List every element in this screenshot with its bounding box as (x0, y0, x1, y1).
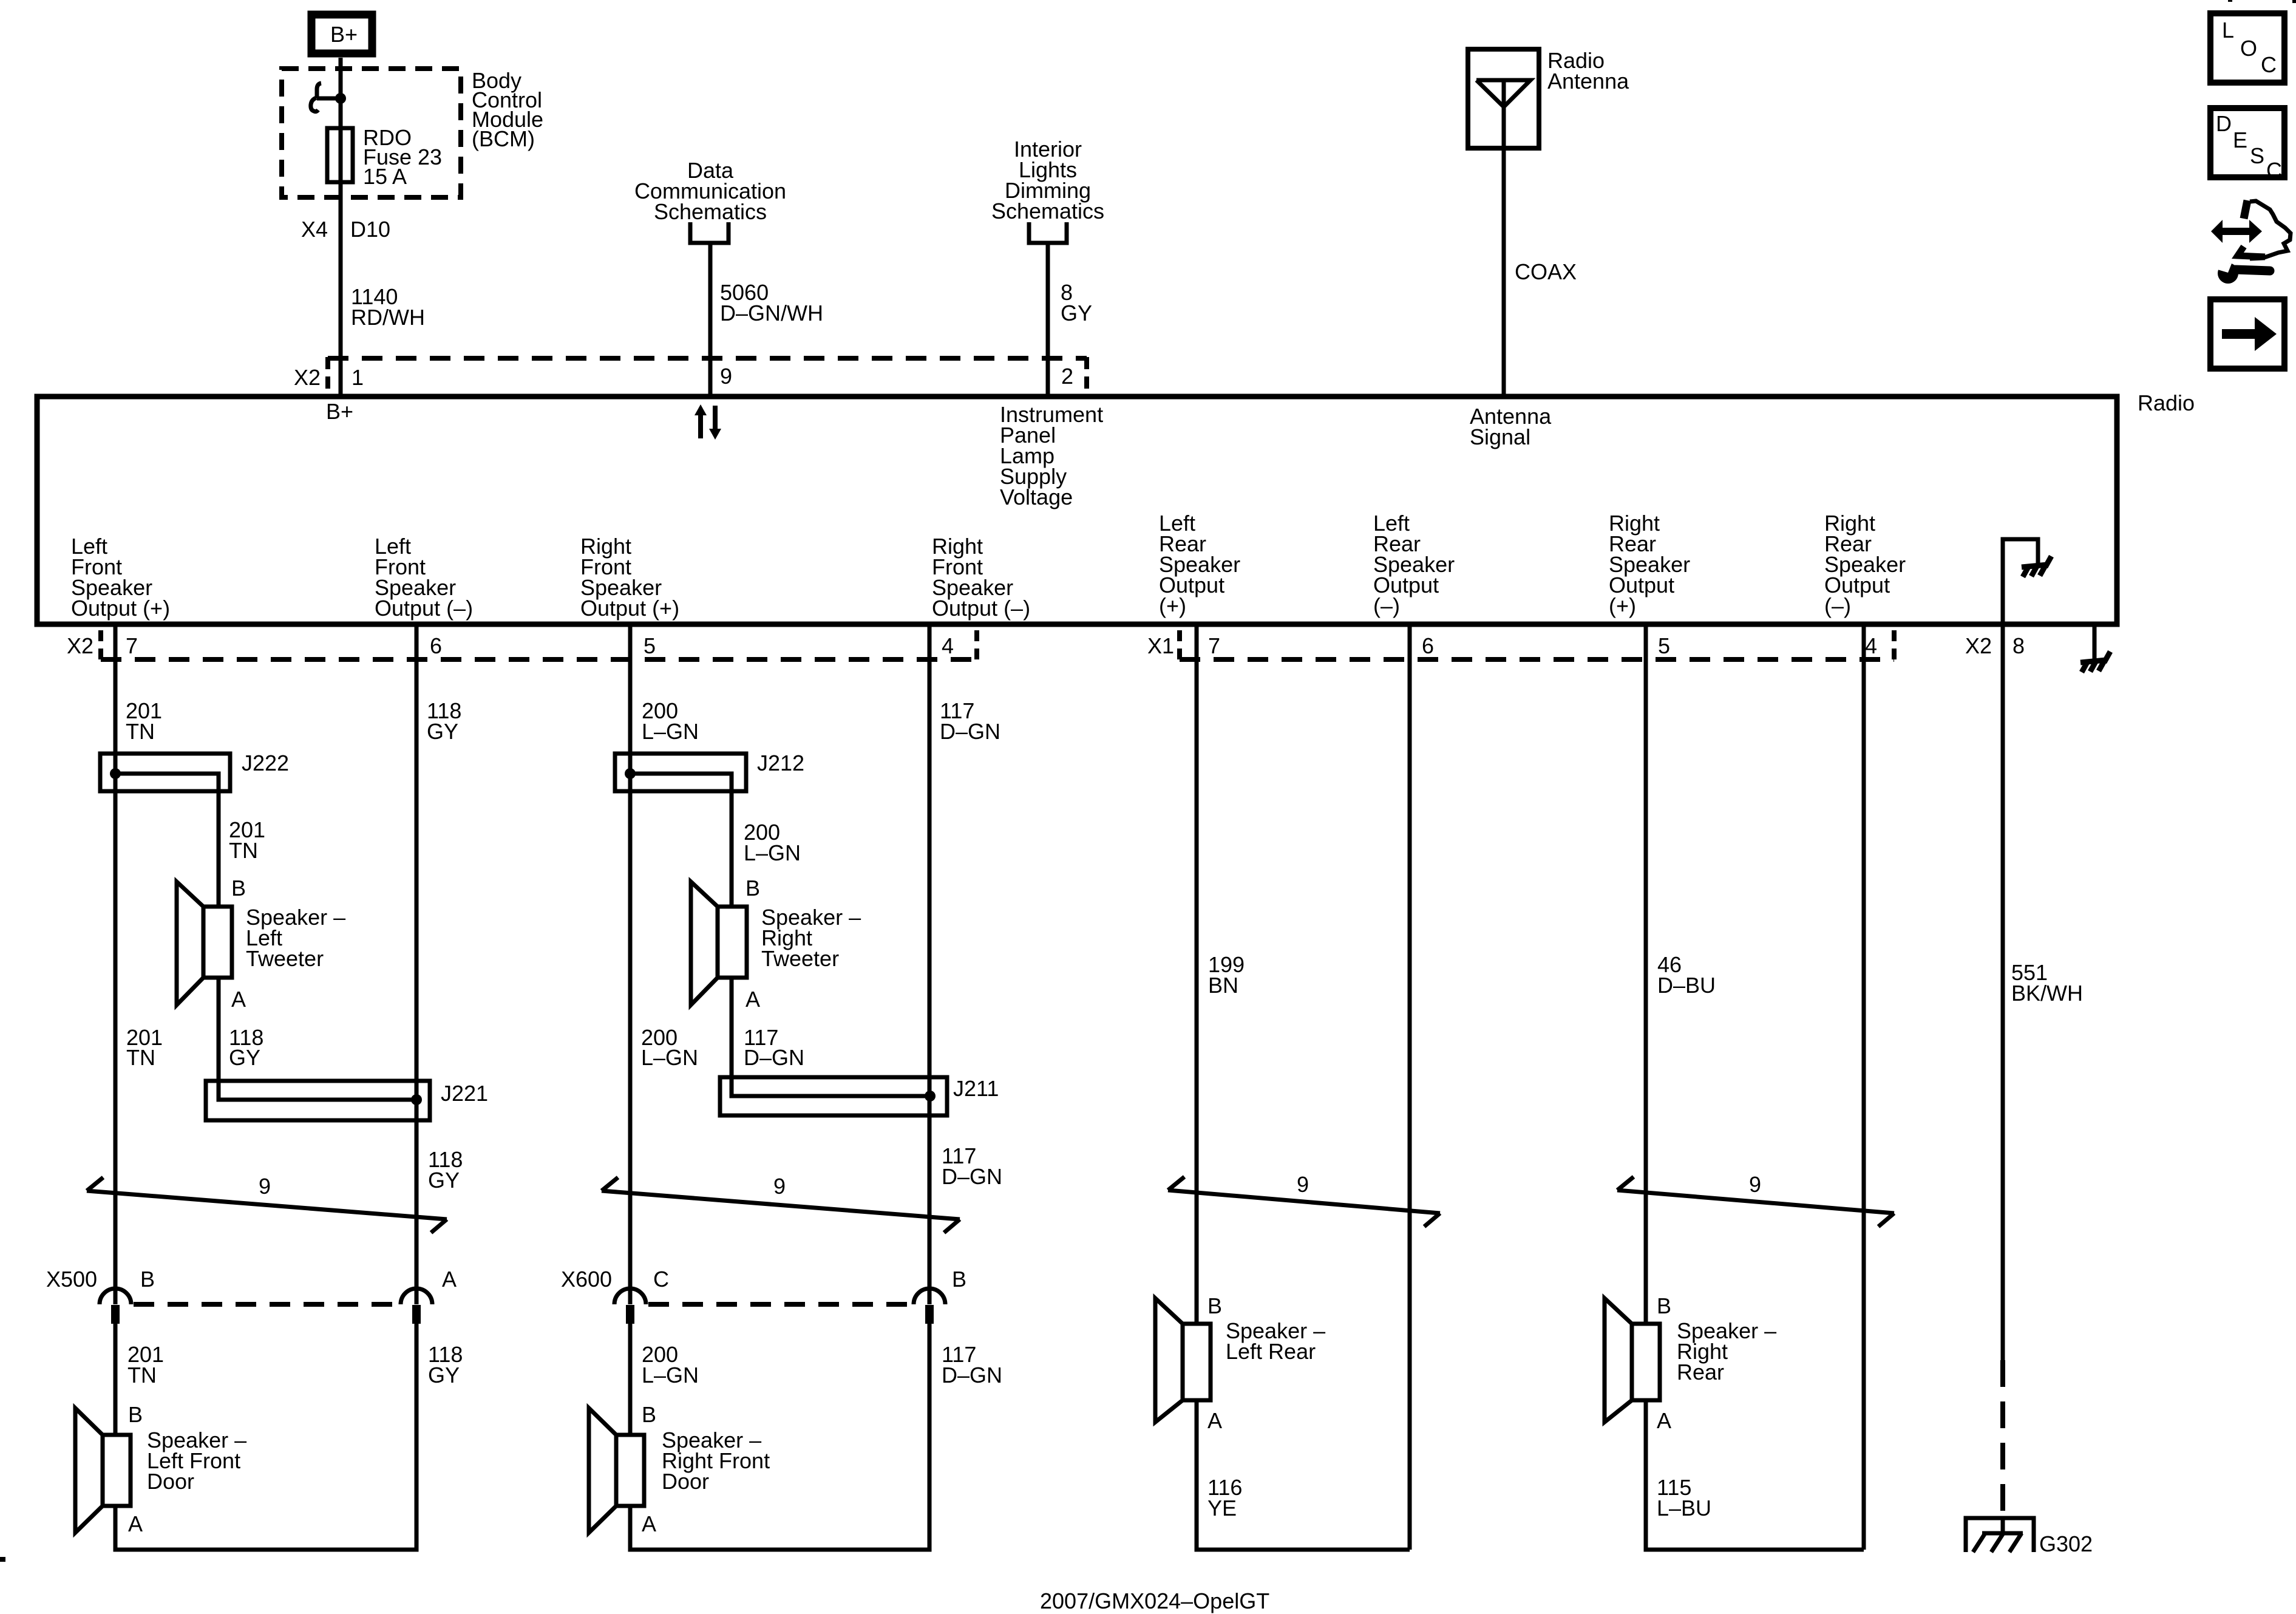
svg-text:118GY: 118GY (428, 1342, 463, 1388)
wire (X1 pin 4 return) (1862, 624, 1866, 1550)
svg-text:6: 6 (430, 633, 442, 658)
fuse RDO Fuse 23 15A (327, 128, 353, 182)
svg-text:B: B (1657, 1293, 1671, 1318)
wire left front door speaker loop (115, 1324, 416, 1550)
svg-text:9: 9 (259, 1174, 271, 1199)
svg-text:X1: X1 (1147, 633, 1174, 658)
svg-text:9: 9 (773, 1174, 786, 1199)
svg-text:X2: X2 (294, 365, 321, 390)
wire left rear speaker loop (1197, 1400, 1410, 1550)
radio internal ground wire (2003, 539, 2038, 624)
svg-text:C: C (2266, 158, 2282, 183)
svg-text:B: B (952, 1267, 966, 1292)
svg-text:9: 9 (1297, 1172, 1309, 1197)
svg-text:5: 5 (644, 633, 656, 658)
svg-text:X4: X4 (301, 217, 328, 242)
wire 5060 (708, 243, 713, 397)
svg-text:5: 5 (1658, 633, 1670, 658)
nav icon DESC (2210, 108, 2284, 183)
wire 199 BN (X1 pin 7) (1195, 624, 1199, 1324)
svg-text:COAX: COAX (1515, 259, 1577, 284)
svg-text:7: 7 (126, 633, 138, 658)
svg-text:B: B (231, 876, 246, 901)
page edge marks top (2228, 0, 2232, 2)
connector X1 right tick (1892, 630, 1897, 659)
wire 551 BK/WH solid part (2001, 624, 2005, 1360)
radio box (37, 397, 2117, 624)
svg-text:L: L (2222, 18, 2234, 43)
BCM dashed box (282, 69, 461, 197)
svg-text:J212: J212 (757, 751, 804, 775)
power symbol B+ (311, 15, 372, 53)
connector X2 right tick (1084, 357, 1089, 392)
svg-text:8: 8 (2012, 633, 2025, 658)
svg-text:D10: D10 (350, 217, 390, 242)
svg-text:X600: X600 (561, 1267, 612, 1292)
svg-text:J221: J221 (441, 1081, 488, 1106)
svg-text:J211: J211 (953, 1076, 999, 1101)
svg-text:Schematics: Schematics (991, 199, 1104, 223)
wire 46 D-BU (X1 pin 5) (1644, 624, 1648, 1324)
svg-text:4: 4 (1865, 633, 1877, 658)
svg-text:D: D (2216, 111, 2232, 136)
wire B+ feed (339, 58, 343, 397)
svg-text:C: C (653, 1267, 669, 1292)
wire 551 BK/WH dashed part (2000, 1360, 2005, 1518)
svg-text:118GY: 118GY (428, 1147, 463, 1193)
svg-text:B+: B+ (330, 22, 358, 47)
svg-text:118GY: 118GY (229, 1025, 263, 1070)
svg-text:Speaker –Left Rear: Speaker –Left Rear (1226, 1318, 1325, 1364)
connector X2 bottom right tick (974, 630, 979, 659)
wire 117 D-GN (pin 4 to X600) (928, 624, 932, 1304)
data communication schematics reference (634, 158, 786, 243)
svg-text:E: E (2233, 128, 2247, 152)
wire 118 GY (pin 6 to X500) (415, 624, 419, 1304)
speaker left rear (1155, 1298, 1211, 1422)
nav icon next arrow (2210, 299, 2284, 369)
speaker left tweeter (177, 882, 232, 1005)
svg-text:B: B (746, 876, 760, 901)
svg-text:4: 4 (942, 633, 954, 658)
svg-text:9: 9 (1749, 1172, 1761, 1197)
svg-text:Schematics: Schematics (654, 199, 767, 224)
interior lights dimming schematics reference (991, 137, 1104, 243)
svg-text:A: A (746, 987, 760, 1012)
connector X2 bottom dashed line (front speakers) (101, 657, 977, 662)
coax wire (1502, 148, 1506, 397)
wire 200 L-GN (pin 5 to X600) (628, 624, 633, 1304)
radio external ground wire (2093, 624, 2097, 659)
svg-text:B: B (642, 1402, 656, 1427)
svg-text:S: S (2250, 143, 2264, 168)
connector X1 dashed line (rear speakers) (1180, 657, 1894, 662)
harness crossing 9 (left rear) (1168, 1177, 1440, 1227)
radio external ground symbol (2080, 652, 2110, 672)
svg-text:118GY: 118GY (427, 698, 461, 744)
wire 8 GY (1046, 243, 1050, 397)
svg-text:O: O (2240, 36, 2257, 61)
svg-text:A: A (128, 1511, 143, 1536)
splice J222 (100, 754, 230, 907)
svg-text:B: B (128, 1402, 143, 1427)
connector X2 left tick (325, 357, 330, 392)
speaker right tweeter (691, 882, 747, 1005)
svg-text:B: B (1207, 1293, 1222, 1318)
splice J221 (206, 978, 430, 1120)
ground G302 (1966, 1518, 2034, 1552)
speaker left front door (75, 1408, 131, 1533)
svg-text:B+: B+ (326, 399, 353, 424)
wire 201 TN (pin 7 to X500) (114, 624, 118, 1304)
svg-text:2007/GMX024–OpelGT: 2007/GMX024–OpelGT (1040, 1588, 1269, 1613)
radio internal ground symbol (2022, 556, 2051, 577)
page edge mark (0, 1557, 5, 1562)
harness crossing 9 (right front) (602, 1177, 960, 1233)
harness crossing 9 (right rear) (1617, 1177, 1894, 1227)
svg-text:A: A (442, 1267, 457, 1292)
svg-text:1: 1 (352, 365, 364, 390)
svg-text:9: 9 (720, 364, 732, 389)
connector X500 (100, 1289, 432, 1324)
connector X1 left tick (1177, 630, 1182, 659)
svg-text:J222: J222 (242, 751, 289, 775)
junction dot (335, 93, 346, 104)
svg-text:Radio: Radio (2138, 390, 2195, 415)
BCM internal switch (311, 83, 341, 112)
svg-text:A: A (1207, 1408, 1222, 1433)
svg-text:C: C (2261, 52, 2277, 77)
splice J212 (615, 754, 746, 907)
svg-text:A: A (231, 987, 246, 1012)
svg-text:X2: X2 (1965, 633, 1992, 658)
svg-text:X2: X2 (67, 633, 93, 658)
wire right front door speaker loop (630, 1324, 929, 1550)
svg-text:2: 2 (1061, 364, 1073, 389)
radio antenna (1468, 49, 1539, 148)
speaker right rear (1605, 1298, 1660, 1422)
svg-text:X500: X500 (46, 1267, 97, 1292)
svg-text:A: A (642, 1511, 656, 1536)
connector X2 bottom left tick (98, 630, 103, 659)
harness crossing 9 (left front) (87, 1177, 447, 1233)
nav icon repair (arrow + panel + wrench) (2211, 200, 2291, 284)
svg-text:B: B (140, 1267, 155, 1292)
wire right rear speaker loop (1646, 1400, 1864, 1550)
connector X2 top dashed line (328, 356, 1087, 361)
bidirectional data arrows (695, 404, 721, 440)
nav icon LOC (2210, 13, 2284, 83)
wire (X1 pin 6 return) (1408, 624, 1412, 1550)
svg-text:G302: G302 (2039, 1531, 2093, 1556)
speaker right front door (589, 1408, 644, 1533)
svg-text:A: A (1657, 1408, 1671, 1433)
splice J211 (720, 978, 947, 1115)
connector X600 (614, 1289, 945, 1324)
svg-text:7: 7 (1208, 633, 1220, 658)
svg-text:6: 6 (1422, 633, 1434, 658)
